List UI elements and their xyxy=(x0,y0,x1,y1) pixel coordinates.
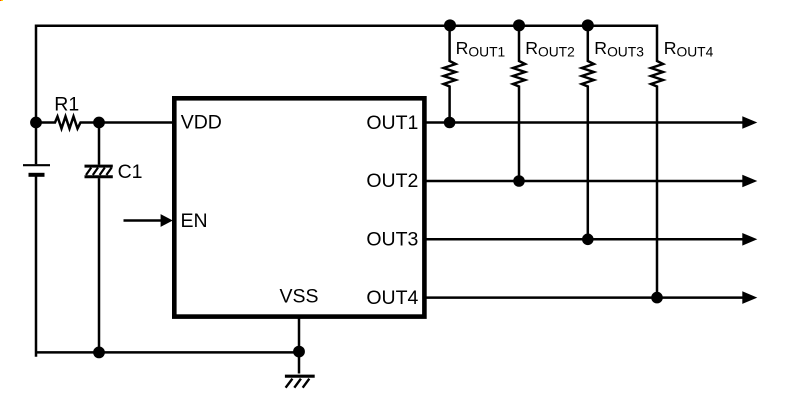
svg-text:ROUT2: ROUT2 xyxy=(525,38,575,59)
svg-text:OUT3: OUT3 xyxy=(366,229,418,251)
svg-text:ROUT3: ROUT3 xyxy=(594,38,644,59)
svg-text:VSS: VSS xyxy=(280,286,319,308)
svg-text:EN: EN xyxy=(181,210,208,232)
svg-text:R1: R1 xyxy=(54,93,79,115)
svg-text:ROUT4: ROUT4 xyxy=(664,38,714,59)
svg-text:OUT2: OUT2 xyxy=(366,170,418,192)
svg-text:OUT1: OUT1 xyxy=(366,112,418,134)
svg-text:ROUT1: ROUT1 xyxy=(456,38,506,59)
svg-text:OUT4: OUT4 xyxy=(366,287,418,309)
svg-text:VDD: VDD xyxy=(181,112,222,134)
svg-text:C1: C1 xyxy=(118,161,143,183)
